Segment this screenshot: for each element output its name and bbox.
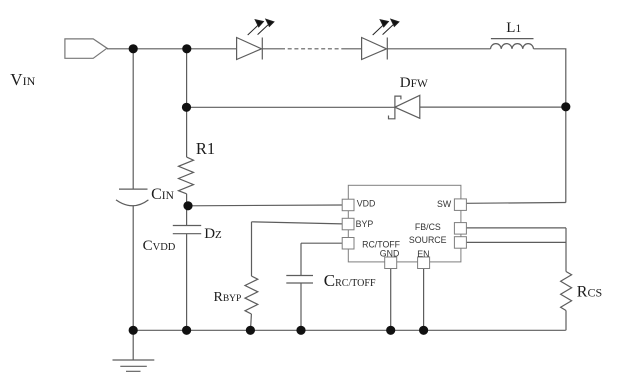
svg-text:EN: EN [417,249,429,259]
svg-text:GND: GND [380,249,400,259]
svg-text:CRC/TOFF: CRC/TOFF [324,271,376,290]
svg-text:DZ: DZ [204,226,222,242]
svg-text:VDD: VDD [357,199,376,209]
svg-text:FB/CS: FB/CS [415,222,441,232]
svg-text:DFW: DFW [400,75,428,91]
svg-text:RBYP: RBYP [214,290,242,305]
svg-text:VIN: VIN [10,70,35,89]
svg-text:SOURCE: SOURCE [409,235,447,245]
svg-text:CIN: CIN [151,186,175,203]
svg-text:CVDD: CVDD [143,238,176,254]
svg-text:BYP: BYP [356,219,374,229]
svg-text:R1: R1 [196,139,215,158]
svg-text:RCS: RCS [577,284,602,301]
svg-text:L1: L1 [506,20,521,36]
svg-text:SW: SW [437,199,452,209]
